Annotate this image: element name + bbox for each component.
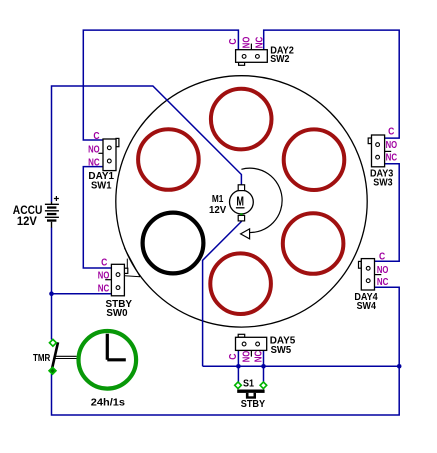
wire SW3 NC down right bus to SW4 C (375, 164, 400, 262)
label SW3 pin NO (386, 140, 398, 151)
svg-text:SW1: SW1 (91, 180, 112, 191)
rotation arc around motor (241, 168, 282, 232)
junction dot SW5 C / S1 bus (236, 364, 241, 369)
label SW4 (357, 301, 377, 312)
wire S1 right pin (263, 366, 265, 382)
cam circle upper-right (red) (284, 129, 345, 190)
label DAY1 (88, 171, 114, 182)
label SW5 pin NO (241, 351, 252, 363)
label SW2 pin NO (241, 37, 252, 49)
TMR switch blade (52, 342, 58, 370)
pushbutton S1 left pin (diamond) (235, 382, 242, 389)
label 12V (battery) (17, 214, 37, 228)
junction dot power bus / SW0 NC (49, 291, 54, 296)
svg-text:NO: NO (241, 351, 252, 363)
label SW0 pin NO (98, 270, 110, 281)
svg-text:SW3: SW3 (373, 177, 393, 188)
label ACCU (13, 203, 43, 217)
wire TMR bottom pin to bottom rail to right bus up to SW4 NC (52, 287, 400, 415)
label STBY (SW0) (106, 299, 133, 310)
svg-text:NC: NC (98, 283, 110, 294)
label SW1 pin NC (88, 158, 100, 169)
wire top bus right from SW2 NC to right bus down to SW3 C (264, 30, 400, 138)
motor M1 (230, 185, 254, 221)
pushbutton S1 right pin (diamond) (260, 382, 267, 389)
svg-text:NC: NC (386, 153, 398, 164)
svg-text:C: C (93, 131, 99, 142)
label DAY3 (370, 168, 394, 179)
wire S1 horizontal bus (203, 365, 400, 367)
svg-text:NO: NO (98, 270, 110, 281)
svg-text:SW4: SW4 (357, 301, 377, 312)
svg-text:12V: 12V (209, 205, 227, 216)
TMR bottom pin (filled diamond) (49, 367, 56, 374)
cam circle lower-left (black) (143, 213, 204, 274)
label SW3 pin C (388, 127, 394, 138)
svg-text:C: C (388, 127, 394, 138)
timer TMR clock face (79, 331, 137, 389)
cam circle upper-left (red) (138, 129, 199, 190)
svg-text:SW5: SW5 (271, 345, 292, 356)
label SW2 (270, 54, 290, 65)
label SW0 (106, 308, 128, 319)
label SW0 pin NC (98, 283, 110, 294)
label SW5 pin NC (254, 351, 265, 363)
junction dot right bus / S1 bus (397, 364, 402, 369)
cam circle bottom (red) (210, 253, 271, 314)
label SW2 pin NC (254, 37, 265, 49)
microswitch SW3 box (368, 135, 391, 167)
label SW5 pin C (228, 354, 239, 360)
label SW0 pin C (101, 257, 107, 268)
svg-text:12V: 12V (17, 214, 37, 228)
label TMR (33, 353, 51, 364)
label SW4 pin C (379, 251, 385, 262)
svg-text:C: C (379, 251, 385, 262)
cam circle lower-right (red) (283, 213, 344, 274)
microswitch SW1 box (98, 138, 119, 170)
svg-text:C: C (228, 38, 239, 44)
wire battery minus down to TMR top pin (51, 228, 53, 340)
wire SW1 NC to SW0 C (83, 167, 111, 268)
label 12V (motor) (209, 205, 227, 216)
label SW1 (91, 180, 112, 191)
microswitch SW4 box (359, 259, 382, 290)
svg-text:NO: NO (386, 140, 398, 151)
label DAY2 (270, 45, 294, 56)
svg-text:24h/1s: 24h/1s (91, 398, 126, 409)
battery ACCU (45, 196, 59, 228)
label M1 (212, 194, 224, 205)
svg-text:C: C (228, 354, 239, 360)
pushbutton S1 bar and plunger (237, 390, 264, 399)
svg-text:SW0: SW0 (106, 308, 128, 319)
wire SW5 C stub (237, 350, 239, 366)
label DAY4 (354, 292, 378, 303)
wire SW5 NC stub (263, 350, 265, 366)
svg-text:NC: NC (377, 277, 389, 288)
SW0 lever (124, 248, 140, 277)
svg-text:STBY: STBY (241, 399, 266, 410)
label SW3 (373, 177, 393, 188)
svg-text:NC: NC (254, 351, 265, 363)
svg-text:SW2: SW2 (270, 54, 290, 65)
label S1 (243, 379, 254, 390)
microswitch SW0 box (105, 264, 128, 296)
label SW1 pin C (93, 131, 99, 142)
cam disc outline (116, 76, 367, 327)
label DAY5 (270, 336, 296, 347)
wire SW0 NC to power bus (52, 293, 112, 295)
wire battery plus up and over to motor plus (52, 86, 242, 202)
clock hands (107, 334, 126, 360)
cam circle top (red) (211, 89, 272, 150)
svg-text:NO: NO (377, 265, 389, 276)
svg-text:C: C (101, 257, 107, 268)
microswitch SW2 box (236, 44, 268, 66)
label SW4 pin NO (377, 265, 389, 276)
microswitch SW5 box (236, 334, 267, 356)
TMR top pin (open diamond) (50, 339, 57, 346)
label SW3 pin NC (386, 153, 398, 164)
svg-text:TMR: TMR (33, 353, 51, 364)
svg-text:M1: M1 (212, 194, 224, 205)
label 24h/1s (91, 398, 126, 409)
svg-text:S1: S1 (243, 379, 254, 390)
svg-text:NC: NC (88, 158, 100, 169)
label SW2 pin C (228, 38, 239, 44)
svg-text:M: M (236, 194, 244, 208)
label SW4 pin NC (377, 277, 389, 288)
wire motor minus diagonal down to S1 bus (203, 221, 242, 366)
label SW5 (271, 345, 292, 356)
svg-text:NO: NO (241, 37, 252, 49)
rotation arrow (241, 229, 250, 239)
svg-text:NC: NC (254, 37, 265, 49)
wire top bus left from SW2 C to left bus down to SW1 C (83, 30, 238, 140)
label SW1 pin NO (88, 144, 100, 155)
svg-text:NO: NO (88, 144, 100, 155)
wire S1 left pin (237, 366, 239, 382)
junction dot SW5 NC / S1 bus (261, 364, 266, 369)
TMR mechanical link (56, 356, 77, 358)
label STBY (S1) (241, 399, 266, 410)
